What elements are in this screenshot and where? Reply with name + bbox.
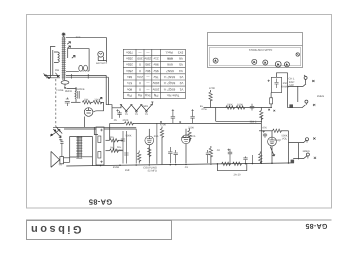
svg-text:5Y3: 5Y3: [76, 36, 81, 39]
svg-text:75v: 75v: [153, 75, 158, 79]
svg-text:84v: 84v: [127, 75, 132, 79]
svg-text:220K: 220K: [188, 127, 194, 130]
svg-text:375v: 375v: [201, 108, 207, 111]
svg-text:285: 285: [145, 63, 150, 67]
svg-text:470K: 470K: [160, 124, 166, 127]
svg-text:Y6: Y6: [145, 113, 149, 116]
svg-text:.02: .02: [216, 149, 220, 152]
svg-text:0: 0: [139, 69, 141, 73]
svg-text:V4: V4: [179, 69, 183, 73]
svg-text:GA-85: GA-85: [89, 198, 113, 207]
svg-text:Rect.: Rect.: [165, 50, 172, 54]
svg-text:Scg: Scg: [145, 93, 151, 97]
svg-text:V5: V5: [179, 63, 183, 67]
svg-text:.05: .05: [113, 119, 117, 122]
svg-text:6SQ7: 6SQ7: [275, 139, 282, 142]
svg-text:GA-85 CONTROLS: GA-85 CONTROLS: [249, 48, 273, 51]
svg-text:90v: 90v: [145, 69, 150, 73]
svg-text:0: 0: [139, 63, 141, 67]
svg-text:V6: V6: [179, 57, 183, 61]
svg-text:1MF: 1MF: [125, 169, 131, 172]
svg-text:OHMS: OHMS: [281, 86, 289, 89]
svg-text:5B4 2: 5B4 2: [250, 120, 257, 123]
svg-text:500K: 500K: [125, 135, 131, 138]
svg-text:750v: 750v: [126, 50, 133, 54]
svg-text:MIC: MIC: [289, 84, 294, 87]
svg-text:2½v: 2½v: [137, 75, 143, 79]
svg-text:450Ω: 450Ω: [113, 166, 119, 169]
svg-text:Gibson: Gibson: [29, 223, 82, 235]
svg-text:22K: 22K: [94, 99, 99, 102]
svg-text:V1: V1: [179, 87, 183, 91]
svg-text:6SQ7 ½: 6SQ7 ½: [163, 81, 175, 85]
svg-text:20MFD: 20MFD: [115, 149, 124, 152]
svg-text:CHOKE: CHOKE: [75, 88, 84, 91]
svg-text:GA-85: GA-85: [305, 222, 327, 229]
svg-text:355v: 355v: [126, 63, 133, 67]
svg-text:100K: 100K: [237, 104, 243, 107]
svg-text:6SN7: 6SN7: [166, 69, 174, 73]
svg-text:250v: 250v: [144, 57, 151, 61]
svg-text:FUSE: FUSE: [57, 89, 64, 92]
svg-text:100K: 100K: [227, 104, 233, 107]
svg-text:30±: 30±: [110, 136, 115, 139]
svg-text:—: —: [145, 50, 149, 54]
svg-text:V2: V2: [179, 81, 183, 85]
svg-text:300: 300: [137, 57, 142, 61]
svg-text:100v: 100v: [152, 87, 159, 91]
svg-text:Y6: Y6: [125, 113, 129, 116]
svg-text:Y4: Y4: [58, 164, 62, 167]
svg-text:Plg: Plg: [127, 93, 132, 97]
svg-text:57v: 57v: [127, 81, 132, 85]
svg-text:250v: 250v: [126, 69, 133, 73]
svg-text:21v: 21v: [153, 57, 158, 61]
svg-text:BIAS: BIAS: [142, 105, 148, 108]
svg-text:—: —: [145, 75, 149, 79]
svg-text:6SQ7 ½: 6SQ7 ½: [163, 87, 175, 91]
svg-text:80v: 80v: [127, 87, 132, 91]
svg-text:44 PILOT: 44 PILOT: [96, 62, 108, 65]
svg-text:355v: 355v: [126, 57, 133, 61]
svg-text:0: 0: [139, 81, 141, 85]
svg-text:V3: V3: [179, 75, 183, 79]
svg-text:6V6: 6V6: [167, 63, 173, 67]
svg-text:10K: 10K: [84, 99, 89, 102]
svg-text:VOL: VOL: [282, 138, 288, 141]
svg-text:Tube No.: Tube No.: [166, 93, 179, 97]
svg-text:95v: 95v: [153, 69, 158, 73]
svg-text:—: —: [145, 87, 149, 91]
svg-text:.02 MFD: .02 MFD: [147, 170, 157, 173]
svg-text:2A-20: 2A-20: [234, 173, 241, 176]
svg-text:5Y3: 5Y3: [177, 50, 183, 54]
svg-text:Kg: Kg: [138, 93, 142, 97]
svg-text:1MEG: 1MEG: [317, 95, 324, 98]
svg-text:1MEG: 1MEG: [302, 150, 309, 153]
svg-text:.01: .01: [184, 166, 188, 169]
svg-text:160v: 160v: [152, 81, 159, 85]
svg-text:6SN7 ½: 6SN7 ½: [163, 75, 175, 79]
svg-text:—: —: [138, 50, 142, 54]
svg-text:250K: 250K: [122, 119, 128, 122]
svg-text:Plg: Plg: [154, 93, 159, 97]
svg-text:96v: 96v: [153, 63, 158, 67]
svg-text:470K: 470K: [209, 87, 215, 90]
svg-text:SW: SW: [55, 69, 60, 72]
svg-text:6V6: 6V6: [154, 135, 159, 138]
svg-text:8MFD: 8MFD: [65, 90, 72, 93]
svg-text:6V6: 6V6: [191, 135, 196, 138]
svg-text:—: —: [145, 81, 149, 85]
svg-text:47K: 47K: [262, 127, 267, 130]
svg-text:0: 0: [139, 87, 141, 91]
svg-text:5W: 5W: [110, 147, 114, 150]
svg-text:Y6: Y6: [135, 113, 139, 116]
svg-text:6V6: 6V6: [167, 57, 173, 61]
